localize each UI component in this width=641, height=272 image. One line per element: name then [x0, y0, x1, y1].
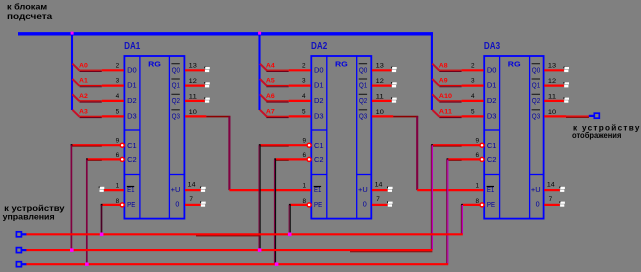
connector marker Q0 of DA3 [563, 67, 565, 69]
svg-text:D2: D2 [127, 96, 137, 105]
terminal: from control unit [16, 262, 21, 267]
overline of Q0 DA2 [359, 63, 367, 65]
overline E1 of DA3 [487, 186, 494, 188]
svg-text:7: 7 [376, 196, 380, 203]
svg-text:6: 6 [116, 152, 120, 159]
wire C1 drop of DA2 to clock line [258, 145, 260, 250]
op-amp DA1 (register RG) box [124, 56, 184, 219]
svg-text:10: 10 [189, 109, 198, 116]
svg-text:Q3: Q3 [359, 111, 367, 120]
wire: bus drop to DA2 taps [258, 34, 260, 110]
svg-text:14: 14 [375, 182, 383, 189]
svg-text:14: 14 [188, 182, 196, 189]
svg-text:11: 11 [189, 93, 198, 100]
svg-text:A1: A1 [79, 78, 88, 85]
svg-text:DA1: DA1 [124, 41, 140, 52]
wire blue terminal lead [21, 233, 26, 235]
svg-text:подсчета: подсчета [7, 11, 52, 21]
wire PE drop of DA3 [460, 205, 462, 234]
svg-text:+U: +U [531, 185, 541, 194]
svg-text:Q2: Q2 [172, 96, 180, 105]
svg-text:C1: C1 [487, 141, 497, 150]
connector marker Q0 of DA1 [204, 67, 206, 69]
wire A6 bus tap to DA2 pin 4 [260, 94, 267, 101]
svg-text:5: 5 [302, 108, 306, 115]
svg-text:A8: A8 [439, 62, 448, 69]
svg-text:A4: A4 [266, 62, 275, 69]
svg-text:D0: D0 [127, 65, 137, 74]
corner pixel [431, 144, 433, 146]
svg-text:8: 8 [303, 198, 307, 205]
wire +U of DA2 pin 14 [372, 189, 388, 191]
wire Q1 stub of DA3 pin 12 [544, 84, 564, 86]
svg-text:C1: C1 [127, 141, 137, 150]
overline of Q1 DA3 [532, 78, 540, 80]
svg-text:D2: D2 [314, 96, 324, 105]
svg-text:Q3: Q3 [532, 111, 540, 120]
overline of Q2 DA1 [171, 93, 179, 95]
svg-text:0: 0 [363, 200, 367, 209]
svg-text:Q3: Q3 [172, 111, 180, 120]
inversion bubble C2 of DA3 [480, 157, 484, 161]
junction DA2 C1 / line2 [258, 248, 262, 252]
svg-text:RG: RG [148, 62, 161, 69]
wire C2 of DA3 [447, 158, 480, 160]
wire A0 bus tap to DA1 pin 2 [72, 64, 79, 71]
svg-text:13: 13 [189, 63, 198, 70]
svg-text:2: 2 [116, 62, 120, 69]
svg-text:Q2: Q2 [359, 96, 367, 105]
overline of Q0 DA1 [171, 63, 179, 65]
wire Q2 stub of DA1 pin 11 [185, 100, 205, 102]
overline of Q1 DA1 [171, 78, 179, 80]
svg-text:13: 13 [548, 63, 557, 70]
wire 0 of DA3 pin 7 [544, 204, 560, 206]
connector marker Q1 of DA3 [563, 82, 565, 84]
wire blue terminal lead [21, 249, 26, 251]
wire blue terminal lead [21, 263, 26, 265]
svg-text:A7: A7 [266, 109, 275, 116]
svg-text:12: 12 [189, 78, 198, 85]
svg-text:4: 4 [471, 93, 475, 100]
svg-text:8: 8 [116, 198, 120, 205]
svg-text:D0: D0 [314, 65, 324, 74]
op-amp DA2 (register RG) box [311, 56, 371, 219]
overline E1 of DA1 [127, 186, 134, 188]
svg-text:5: 5 [116, 108, 120, 115]
inversion bubble PE of DA2 [307, 203, 311, 207]
wire 0 of DA2 pin 7 [372, 204, 388, 206]
corner pixel [86, 158, 88, 160]
wire Q1 stub of DA1 pin 12 [185, 84, 205, 86]
svg-text:9: 9 [475, 138, 479, 145]
svg-text:PE: PE [487, 200, 495, 209]
wire: control line 2 (C1 net) [26, 249, 432, 251]
overline of Q2 DA2 [359, 93, 367, 95]
svg-text:10: 10 [548, 109, 557, 116]
svg-text:D0: D0 [487, 65, 497, 74]
svg-text:7: 7 [549, 196, 553, 203]
wire Q3 of DA3 to output terminal [544, 115, 566, 117]
wire A11 bus tap to DA3 pin 5 [432, 110, 439, 117]
overline of Q3 DA2 [359, 109, 367, 111]
connector marker Q2 of DA2 [391, 97, 393, 99]
svg-text:3: 3 [471, 78, 475, 85]
svg-text:управления: управления [3, 212, 55, 221]
wire C1 drop of DA1 to clock line [70, 145, 72, 250]
inversion bubble C1 of DA3 [480, 143, 484, 147]
svg-text:6: 6 [303, 152, 307, 159]
wire C2 drop of DA1 [86, 159, 88, 264]
svg-text:12: 12 [548, 78, 557, 85]
svg-text:9: 9 [116, 138, 120, 145]
wire blue terminal lead [589, 115, 594, 117]
wire Q2 stub of DA2 pin 11 [372, 100, 392, 102]
svg-text:PE: PE [127, 200, 135, 209]
svg-text:Q1: Q1 [359, 81, 367, 90]
wire A4 bus tap to DA2 pin 2 [260, 64, 267, 71]
svg-text:1: 1 [475, 182, 479, 189]
wire A8 bus tap to DA3 pin 2 [432, 64, 439, 71]
terminal: from control unit [16, 248, 21, 253]
connector marker Q1 of DA2 [391, 82, 393, 84]
wire: control line 1 (PE net) [26, 233, 463, 235]
svg-text:A3: A3 [79, 109, 88, 116]
svg-text:Q1: Q1 [532, 81, 540, 90]
svg-text:C2: C2 [314, 155, 324, 164]
corner pixel [259, 144, 261, 146]
wire +U of DA1 pin 14 [185, 189, 201, 191]
wire A10 bus tap to DA3 pin 4 [432, 94, 439, 101]
svg-text:D1: D1 [314, 81, 324, 90]
svg-text:4: 4 [116, 93, 120, 100]
svg-text:A2: A2 [79, 93, 88, 100]
svg-text:6: 6 [475, 152, 479, 159]
svg-text:Q1: Q1 [172, 81, 180, 90]
wire C2 of DA1 [87, 158, 120, 160]
svg-text:3: 3 [302, 78, 306, 85]
wire 0 of DA1 pin 7 [185, 204, 201, 206]
junction DA1 C1 / line2 [70, 248, 74, 252]
svg-text:отображения: отображения [572, 130, 622, 140]
svg-text:A11: A11 [439, 109, 453, 116]
wire C1 drop of DA3 to clock line [430, 145, 432, 250]
wire PE of DA2 pin 8 [290, 204, 307, 206]
junction on bus at DA1 [71, 32, 74, 35]
junction DA1 C2 / line3 [85, 262, 89, 266]
svg-text:D3: D3 [127, 111, 137, 120]
terminal: from control unit [16, 232, 21, 237]
wire E1 of DA2 pin 1 [229, 189, 310, 191]
junction DA1 PE / line1 [100, 233, 104, 237]
wire A2 bus tap to DA1 pin 4 [72, 94, 79, 101]
svg-text:Q0: Q0 [359, 65, 367, 74]
wire: control line 3 (C2 net) [26, 263, 448, 265]
connector marker Q1 of DA1 [204, 82, 206, 84]
svg-text:+U: +U [171, 185, 181, 194]
overline of Q1 DA2 [359, 78, 367, 80]
overline of Q2 DA3 [532, 93, 540, 95]
wire A5 bus tap to DA2 pin 3 [260, 79, 267, 86]
inversion bubble C1 of DA2 [307, 143, 311, 147]
svg-text:2: 2 [302, 62, 306, 69]
wire: bus drop to DA1 taps [71, 34, 73, 110]
svg-text:D2: D2 [487, 96, 497, 105]
svg-text:C2: C2 [487, 155, 497, 164]
overline of Q3 DA1 [171, 109, 179, 111]
svg-text:3: 3 [116, 78, 120, 85]
svg-text:7: 7 [189, 196, 193, 203]
svg-text:C2: C2 [127, 155, 137, 164]
svg-text:2: 2 [471, 62, 475, 69]
svg-text:D3: D3 [314, 111, 324, 120]
wire E1 of DA1 pin 1 [99, 187, 101, 189]
svg-text:PE: PE [314, 200, 322, 209]
wire PE drop of DA1 [101, 205, 103, 234]
svg-text:1: 1 [303, 182, 307, 189]
junction on bus at DA2 [258, 32, 261, 35]
inversion bubble PE of DA1 [120, 203, 124, 207]
overline of Q3 DA3 [532, 109, 540, 111]
wire +U of DA3 pin 14 [544, 189, 560, 191]
svg-text:13: 13 [376, 63, 385, 70]
wire: power/data bus top [18, 32, 433, 35]
svg-text:DA3: DA3 [484, 41, 500, 52]
connector marker Q2 of DA1 [204, 97, 206, 99]
junction DA2 PE / line1 [288, 233, 292, 237]
wire Q1 stub of DA2 pin 12 [372, 84, 392, 86]
wire Q0 stub of DA2 pin 13 [372, 69, 392, 71]
wire A7 bus tap to DA2 pin 5 [260, 110, 267, 117]
wire: bus corner drop to DA3 taps [431, 32, 433, 110]
op-amp DA3 (register RG) box [484, 56, 543, 219]
wire C2 drop of DA3 [446, 159, 448, 264]
wire Q2 stub of DA3 pin 11 [544, 100, 564, 102]
wire Q0 stub of DA3 pin 13 [544, 69, 564, 71]
svg-text:DA2: DA2 [311, 41, 327, 52]
svg-text:12: 12 [376, 78, 385, 85]
wire PE of DA3 pin 8 [462, 204, 480, 206]
wire PE of DA1 pin 8 [102, 204, 121, 206]
svg-text:14: 14 [547, 182, 555, 189]
wire C1 of DA3 [432, 144, 480, 146]
svg-text:9: 9 [303, 138, 307, 145]
wire Q3 of DA2 to next chip E1: red then maroon, corner down [372, 115, 393, 117]
wire PE drop of DA2 [288, 205, 290, 234]
svg-text:0: 0 [536, 200, 540, 209]
junction DA2 C2 / line3 [275, 262, 279, 266]
wire C1 of DA1 [71, 144, 120, 146]
wire C2 drop of DA2 [273, 159, 275, 264]
wire C1 of DA2 [260, 144, 307, 146]
inversion bubble PE of DA3 [480, 203, 484, 207]
svg-text:D1: D1 [487, 81, 497, 90]
overline of Q0 DA3 [532, 63, 540, 65]
svg-text:RG: RG [508, 62, 521, 69]
wire A1 bus tap to DA1 pin 3 [72, 79, 79, 86]
svg-text:11: 11 [376, 93, 385, 100]
wire Q3 of DA1 to next chip E1: red then maroon, corner down [185, 115, 206, 117]
svg-text:A9: A9 [439, 78, 448, 85]
wire A3 bus tap to DA1 pin 5 [72, 110, 79, 117]
svg-text:8: 8 [475, 198, 479, 205]
svg-text:A10: A10 [439, 93, 453, 100]
svg-text:A6: A6 [266, 93, 275, 100]
corner pixel [274, 158, 276, 160]
svg-text:Q2: Q2 [532, 96, 540, 105]
svg-text:1: 1 [116, 182, 120, 189]
wire Q0 stub of DA1 pin 13 [185, 69, 205, 71]
corner pixel [71, 144, 73, 146]
svg-text:A5: A5 [266, 78, 275, 85]
inversion bubble C1 of DA1 [120, 143, 124, 147]
connector marker Q2 of DA3 [563, 97, 565, 99]
svg-text:10: 10 [376, 109, 385, 116]
svg-text:C1: C1 [314, 141, 324, 150]
svg-text:5: 5 [471, 108, 475, 115]
inversion bubble C2 of DA1 [120, 157, 124, 161]
svg-text:11: 11 [548, 93, 557, 100]
corner pixel [447, 158, 449, 160]
inversion bubble C2 of DA2 [307, 157, 311, 161]
svg-text:+U: +U [358, 185, 368, 194]
svg-text:Q0: Q0 [172, 65, 180, 74]
svg-text:A0: A0 [79, 62, 88, 69]
wire A9 bus tap to DA3 pin 3 [432, 79, 439, 86]
svg-text:Q0: Q0 [532, 65, 540, 74]
svg-text:D1: D1 [127, 81, 137, 90]
svg-text:4: 4 [302, 93, 306, 100]
svg-text:D3: D3 [487, 111, 497, 120]
connector marker Q0 of DA2 [391, 67, 393, 69]
terminal: to display device [594, 113, 599, 118]
svg-text:RG: RG [335, 62, 348, 69]
overline E1 of DA2 [314, 186, 321, 188]
wire C2 of DA2 [275, 158, 307, 160]
wire E1 of DA3 pin 1 [417, 189, 483, 191]
svg-text:0: 0 [175, 200, 179, 209]
